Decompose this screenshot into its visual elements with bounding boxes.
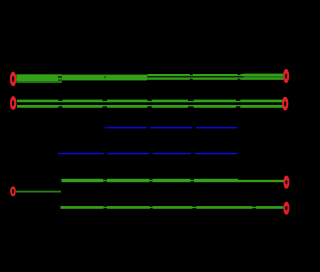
transcript 2 joint pinch at x=188-193.6 bottom outer	[188, 106, 194, 107]
transcript 3 left end marker (small red ellipse)	[10, 186, 16, 196]
transcript 2 joint connector 1 bottom	[59, 105, 63, 106]
transcript 3 joint pinch 1 top	[103, 179, 107, 180]
transcript 2 hollow exon segment 3 top edge	[152, 100, 237, 103]
transcript 1 hollow exon joint notch at x=238 top	[238, 74, 241, 75]
blue dashed line 1 dash b	[150, 127, 192, 128]
transcript 1 exon box 2 (medium filled)	[62, 75, 148, 81]
transcript 4 joint pinch 1 bottom	[104, 207, 108, 210]
transcript 1 hollow exon joint notch at x=190 top	[190, 74, 193, 75]
transcript 1 exon box 1 (tall filled)	[16, 74, 61, 83]
transcript 2 joint connector 3 top	[236, 101, 240, 102]
transcript 4 joint pinch 1 top	[104, 205, 108, 208]
transcript 3 right end marker (red ellipse)	[283, 176, 289, 189]
transcript 3 joint pinch 1 bottom	[103, 180, 107, 183]
transcript 1 hollow exon top edge	[147, 74, 243, 76]
blue dashed line 1 dash c	[196, 127, 237, 128]
transcript 3 joint pinch 3 bottom	[191, 180, 195, 183]
transcript 1 hollow exon joint notch at x=190 bottom	[190, 79, 193, 80]
transcript 4 joint pinch 4 bottom	[253, 207, 257, 210]
transcript 2 right end marker (red ellipse)	[282, 97, 288, 111]
transcript 2 hollow exon segment 3 bottom edge	[152, 105, 237, 108]
transcript 1 box 1 right joint notch upper	[58, 76, 62, 78]
transcript 3 joint pinch 2 bottom	[150, 180, 153, 183]
transcript 1 left end marker (red ellipse)	[10, 72, 17, 87]
transcript 2 joint connector 2 top	[148, 101, 152, 102]
transcript 2 joint connector 1 top	[59, 101, 63, 102]
transcript 2 joint pinch at x=103-107 bottom outer	[103, 106, 108, 107]
transcript 4 joint pinch 3 top	[193, 205, 197, 208]
transcript 1 exon box 1 darker bottom stripe	[16, 81, 61, 83]
transcript 3 right thin line	[238, 180, 284, 182]
transcript 1 exon box 3 (right filled)	[244, 74, 284, 80]
transcript 3 joint pinch 2 top	[150, 179, 153, 180]
transcript 2 hollow exon segment 2 top edge	[62, 100, 147, 103]
transcript 3 blue speck before line start	[60, 179, 61, 180]
transcript 2 hollow exon segment 4 top edge	[240, 100, 283, 103]
transcript 2 joint pinch at x=103-107 top outer	[103, 100, 108, 101]
transcript 4 right end marker (red ellipse)	[283, 202, 289, 215]
transcript 1 exon box 3 dark center band	[244, 76, 284, 78]
transcript 1 hollow exon joint notch at x=238 bottom	[238, 79, 241, 80]
transcript 4 joint pinch 2 top	[150, 205, 153, 208]
transcript 4 intron line	[61, 206, 284, 209]
blue dashed line 2 dash a	[58, 153, 104, 155]
blue dashed line 2 dash d	[195, 153, 237, 155]
transcript 3 medium line	[62, 179, 239, 182]
transcript 4 joint pinch 2 bottom	[150, 207, 153, 210]
transcript 2 left end marker (red ellipse)	[10, 96, 17, 110]
blue dashed line 2 dash b	[107, 153, 149, 155]
transcript 3 joint pinch 3 top	[191, 179, 195, 180]
transcript 2 hollow exon segment 1 bottom edge	[17, 105, 59, 108]
blue dashed line 2 dash c	[153, 153, 191, 155]
transcript 2 hollow exon segment 1 top edge	[17, 100, 59, 103]
transcript 2 joint connector 2 bottom	[148, 105, 152, 106]
transcript 1 box 1 right joint notch lower	[58, 79, 62, 81]
transcript 4 blue speck before line start	[60, 206, 61, 207]
blue dashed line 1 dash a	[107, 127, 146, 128]
transcript 2 joint pinch at x=188-193.6 top outer	[188, 100, 194, 101]
transcript 4 joint pinch 3 bottom	[193, 207, 197, 210]
transcript 1 exon joint notch at x=105	[104, 76, 105, 78]
transcript 2 joint connector 3 bottom	[236, 105, 240, 106]
transcript 1 right end marker (red ellipse)	[283, 69, 289, 83]
transcript 3 left thin intron line	[16, 191, 61, 193]
transcript 1 hollow exon bottom edge	[147, 77, 243, 79]
transcript 2 hollow exon segment 2 bottom edge	[62, 105, 147, 108]
transcript 2 hollow exon segment 4 bottom edge	[240, 105, 283, 108]
blue dashed line 1 faint lead dash	[103, 127, 107, 128]
transcript 4 joint pinch 4 top	[253, 205, 257, 208]
